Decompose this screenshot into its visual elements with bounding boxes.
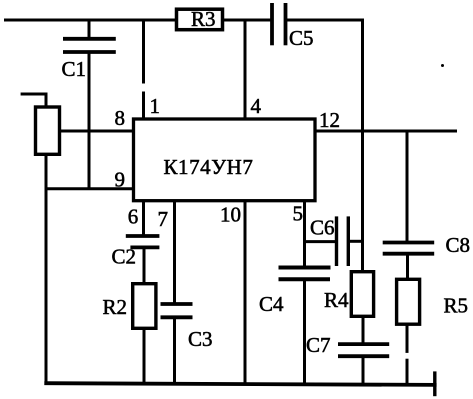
svg-text:4: 4 bbox=[251, 94, 262, 118]
svg-text:5: 5 bbox=[293, 202, 304, 226]
pin 5 wire bbox=[303, 200, 306, 267]
svg-text:R3: R3 bbox=[191, 7, 216, 31]
wire C3 to bottom rail bbox=[173, 318, 176, 385]
wire C7 to bottom rail bbox=[362, 358, 365, 386]
IC DA1 K174UN7 bbox=[134, 119, 316, 201]
wire R4 to C7 bbox=[362, 316, 365, 344]
svg-text:10: 10 bbox=[220, 203, 241, 227]
resistor R1 input bbox=[21, 93, 60, 386]
svg-text:R5: R5 bbox=[444, 294, 469, 318]
capacitor C7 bbox=[306, 333, 389, 357]
pin 4 wire bbox=[244, 20, 247, 118]
svg-text:R4: R4 bbox=[324, 288, 349, 312]
wire pin 12 drop to R4 bbox=[361, 130, 364, 272]
svg-text:12: 12 bbox=[319, 108, 340, 132]
wire C4 to bottom rail bbox=[303, 281, 306, 385]
svg-text:7: 7 bbox=[158, 207, 169, 231]
bottom rail wire bbox=[44, 383, 436, 385]
wire C2 to R2 bbox=[143, 248, 146, 284]
capacitor C4 bbox=[259, 268, 331, 317]
svg-text:C7: C7 bbox=[306, 333, 331, 357]
pin 1 wire bbox=[142, 20, 145, 118]
capacitor C2 bbox=[112, 236, 160, 269]
pin 6 wire bbox=[142, 200, 145, 235]
pin 10 wire bbox=[244, 200, 247, 385]
wire R2 to bottom rail bbox=[143, 328, 146, 385]
svg-text:C8: C8 bbox=[446, 233, 471, 257]
svg-text:9: 9 bbox=[115, 168, 126, 192]
wire pin 8 to IC bbox=[60, 130, 134, 133]
svg-text:К174УН7: К174УН7 bbox=[164, 155, 254, 179]
wire top rail middle segment bbox=[224, 19, 271, 22]
wire top rail left segment bbox=[4, 19, 176, 22]
wire pin 9 to IC bbox=[45, 187, 134, 190]
svg-text:C1: C1 bbox=[62, 57, 87, 81]
wire pin 12 tap to C8 bbox=[406, 131, 409, 241]
resistor R5 bbox=[397, 279, 468, 324]
svg-text:6: 6 bbox=[128, 205, 139, 229]
svg-text:C6: C6 bbox=[310, 216, 335, 240]
svg-text:8: 8 bbox=[115, 106, 126, 130]
svg-text:C2: C2 bbox=[112, 245, 137, 269]
resistor R3 bbox=[177, 7, 223, 31]
svg-text:C5: C5 bbox=[289, 26, 314, 50]
wire top rail right segment and right drop to pin 12 bbox=[287, 19, 444, 133]
wire R5 dashed drop to bottom rail bbox=[406, 324, 409, 385]
svg-text:C4: C4 bbox=[259, 292, 284, 316]
capacitor C8 bbox=[383, 233, 470, 257]
capacitor C6 bbox=[303, 216, 363, 267]
svg-text:R2: R2 bbox=[103, 295, 128, 319]
svg-text:C3: C3 bbox=[188, 327, 213, 351]
svg-text:1: 1 bbox=[150, 94, 161, 118]
capacitor C1 bbox=[62, 20, 116, 190]
pin 7 wire bbox=[173, 200, 176, 304]
resistor R4 bbox=[324, 272, 374, 317]
wire C8 to R5 bbox=[406, 255, 409, 279]
capacitor C5 bbox=[272, 3, 314, 50]
capacitor C3 bbox=[161, 304, 213, 351]
pin 12 wire bbox=[316, 130, 457, 133]
bottom rail end tick bbox=[433, 371, 436, 396]
resistor R2 bbox=[103, 284, 156, 329]
